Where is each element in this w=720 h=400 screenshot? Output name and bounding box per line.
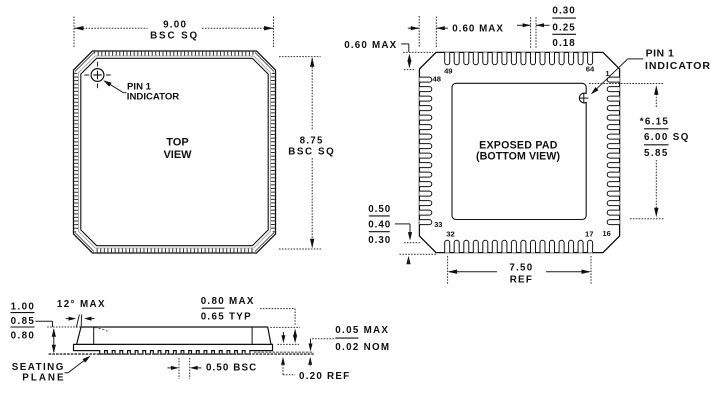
dimension 0.30 / 0.25 / 0.18 (lead width) <box>530 17 532 49</box>
side view lead frame flange <box>74 344 273 350</box>
dimension 0.50 BSC (lead pitch) <box>178 358 180 379</box>
dimension 0.60 MAX horizontal (top chamfer) <box>418 16 420 47</box>
side view mold chamfer dashed arc <box>95 328 108 332</box>
top view pin 1 indicator target symbol <box>91 69 104 82</box>
svg-text:0.50: 0.50 <box>368 204 391 215</box>
svg-text:17: 17 <box>585 230 593 239</box>
top view package outer outline <box>74 51 276 253</box>
svg-text:VIEW: VIEW <box>163 149 192 161</box>
svg-text:TOP: TOP <box>166 137 188 149</box>
svg-text:1.00: 1.00 <box>11 301 36 312</box>
pin 1 indicator label and leader (bottom view) <box>628 58 644 60</box>
lead bottom datum line (right) <box>254 351 314 353</box>
svg-text:0.02 NOM: 0.02 NOM <box>335 342 390 353</box>
side view mold body <box>77 327 271 344</box>
svg-text:0.05 MAX: 0.05 MAX <box>335 325 389 336</box>
svg-text:5.85: 5.85 <box>644 148 669 159</box>
top view chamfer corner details <box>74 52 96 74</box>
bottom view package outline <box>419 52 619 252</box>
svg-text:7.50: 7.50 <box>509 263 533 274</box>
top view pin 1 indicator label and leader arrow <box>123 92 126 94</box>
svg-text:*6.15: *6.15 <box>640 116 669 127</box>
svg-text:0.30: 0.30 <box>368 235 391 246</box>
svg-text:0.80 MAX: 0.80 MAX <box>201 296 255 307</box>
svg-text:8.75: 8.75 <box>300 135 324 146</box>
svg-text:(BOTTOM VIEW): (BOTTOM VIEW) <box>476 150 560 162</box>
seating plane line <box>49 353 314 355</box>
svg-text:0.25: 0.25 <box>552 23 575 34</box>
top view lead tick band <box>76 54 272 250</box>
dimension 7.50 REF <box>447 256 449 284</box>
svg-text:PIN 1: PIN 1 <box>646 48 675 60</box>
top view inner outline <box>81 58 268 245</box>
svg-text:0.85: 0.85 <box>11 316 36 327</box>
svg-text:48: 48 <box>432 75 440 84</box>
side view leads (teeth) <box>100 349 104 353</box>
svg-text:12° MAX: 12° MAX <box>57 299 106 310</box>
svg-text:SEATING: SEATING <box>12 362 65 373</box>
svg-text:32: 32 <box>446 230 454 239</box>
svg-text:0.50 BSC: 0.50 BSC <box>206 363 257 374</box>
svg-text:16: 16 <box>602 229 610 238</box>
svg-text:BSC SQ: BSC SQ <box>150 31 199 42</box>
exposed pad pin 1 indicator crosshair <box>579 97 588 99</box>
svg-text:BSC SQ: BSC SQ <box>288 146 335 157</box>
svg-text:9.00: 9.00 <box>163 19 187 30</box>
svg-text:PLANE: PLANE <box>22 372 65 383</box>
svg-text:0.18: 0.18 <box>552 38 575 49</box>
svg-text:33: 33 <box>434 220 442 229</box>
svg-text:0.40: 0.40 <box>368 219 391 230</box>
svg-text:0.30: 0.30 <box>552 6 575 17</box>
dimension 6.15 / 6.00 SQ / 5.85 (exposed pad) <box>589 83 663 85</box>
svg-text:INDICATOR: INDICATOR <box>645 60 711 72</box>
svg-text:REF: REF <box>510 274 533 285</box>
top view mid grey inner ring <box>79 56 271 248</box>
bottom view lead slots, 16 per side, pins 1-64 <box>445 52 450 64</box>
svg-text:0.60 MAX: 0.60 MAX <box>344 40 397 51</box>
dimension 8.75 BSC SQ <box>279 56 321 58</box>
dimension 9.00 BSC SQ <box>73 17 75 49</box>
svg-text:64: 64 <box>586 65 595 74</box>
svg-text:0.80: 0.80 <box>11 330 36 341</box>
svg-text:0.20 REF: 0.20 REF <box>299 371 350 382</box>
svg-text:0.65 TYP: 0.65 TYP <box>201 311 252 322</box>
dimension 0.20 REF (lead thickness) <box>281 357 285 365</box>
svg-text:0.60 MAX: 0.60 MAX <box>452 24 504 35</box>
svg-text:49: 49 <box>444 66 452 75</box>
svg-text:6.00 SQ: 6.00 SQ <box>644 132 690 143</box>
exposed pad outline <box>452 83 586 219</box>
svg-text:INDICATOR: INDICATOR <box>127 92 179 103</box>
